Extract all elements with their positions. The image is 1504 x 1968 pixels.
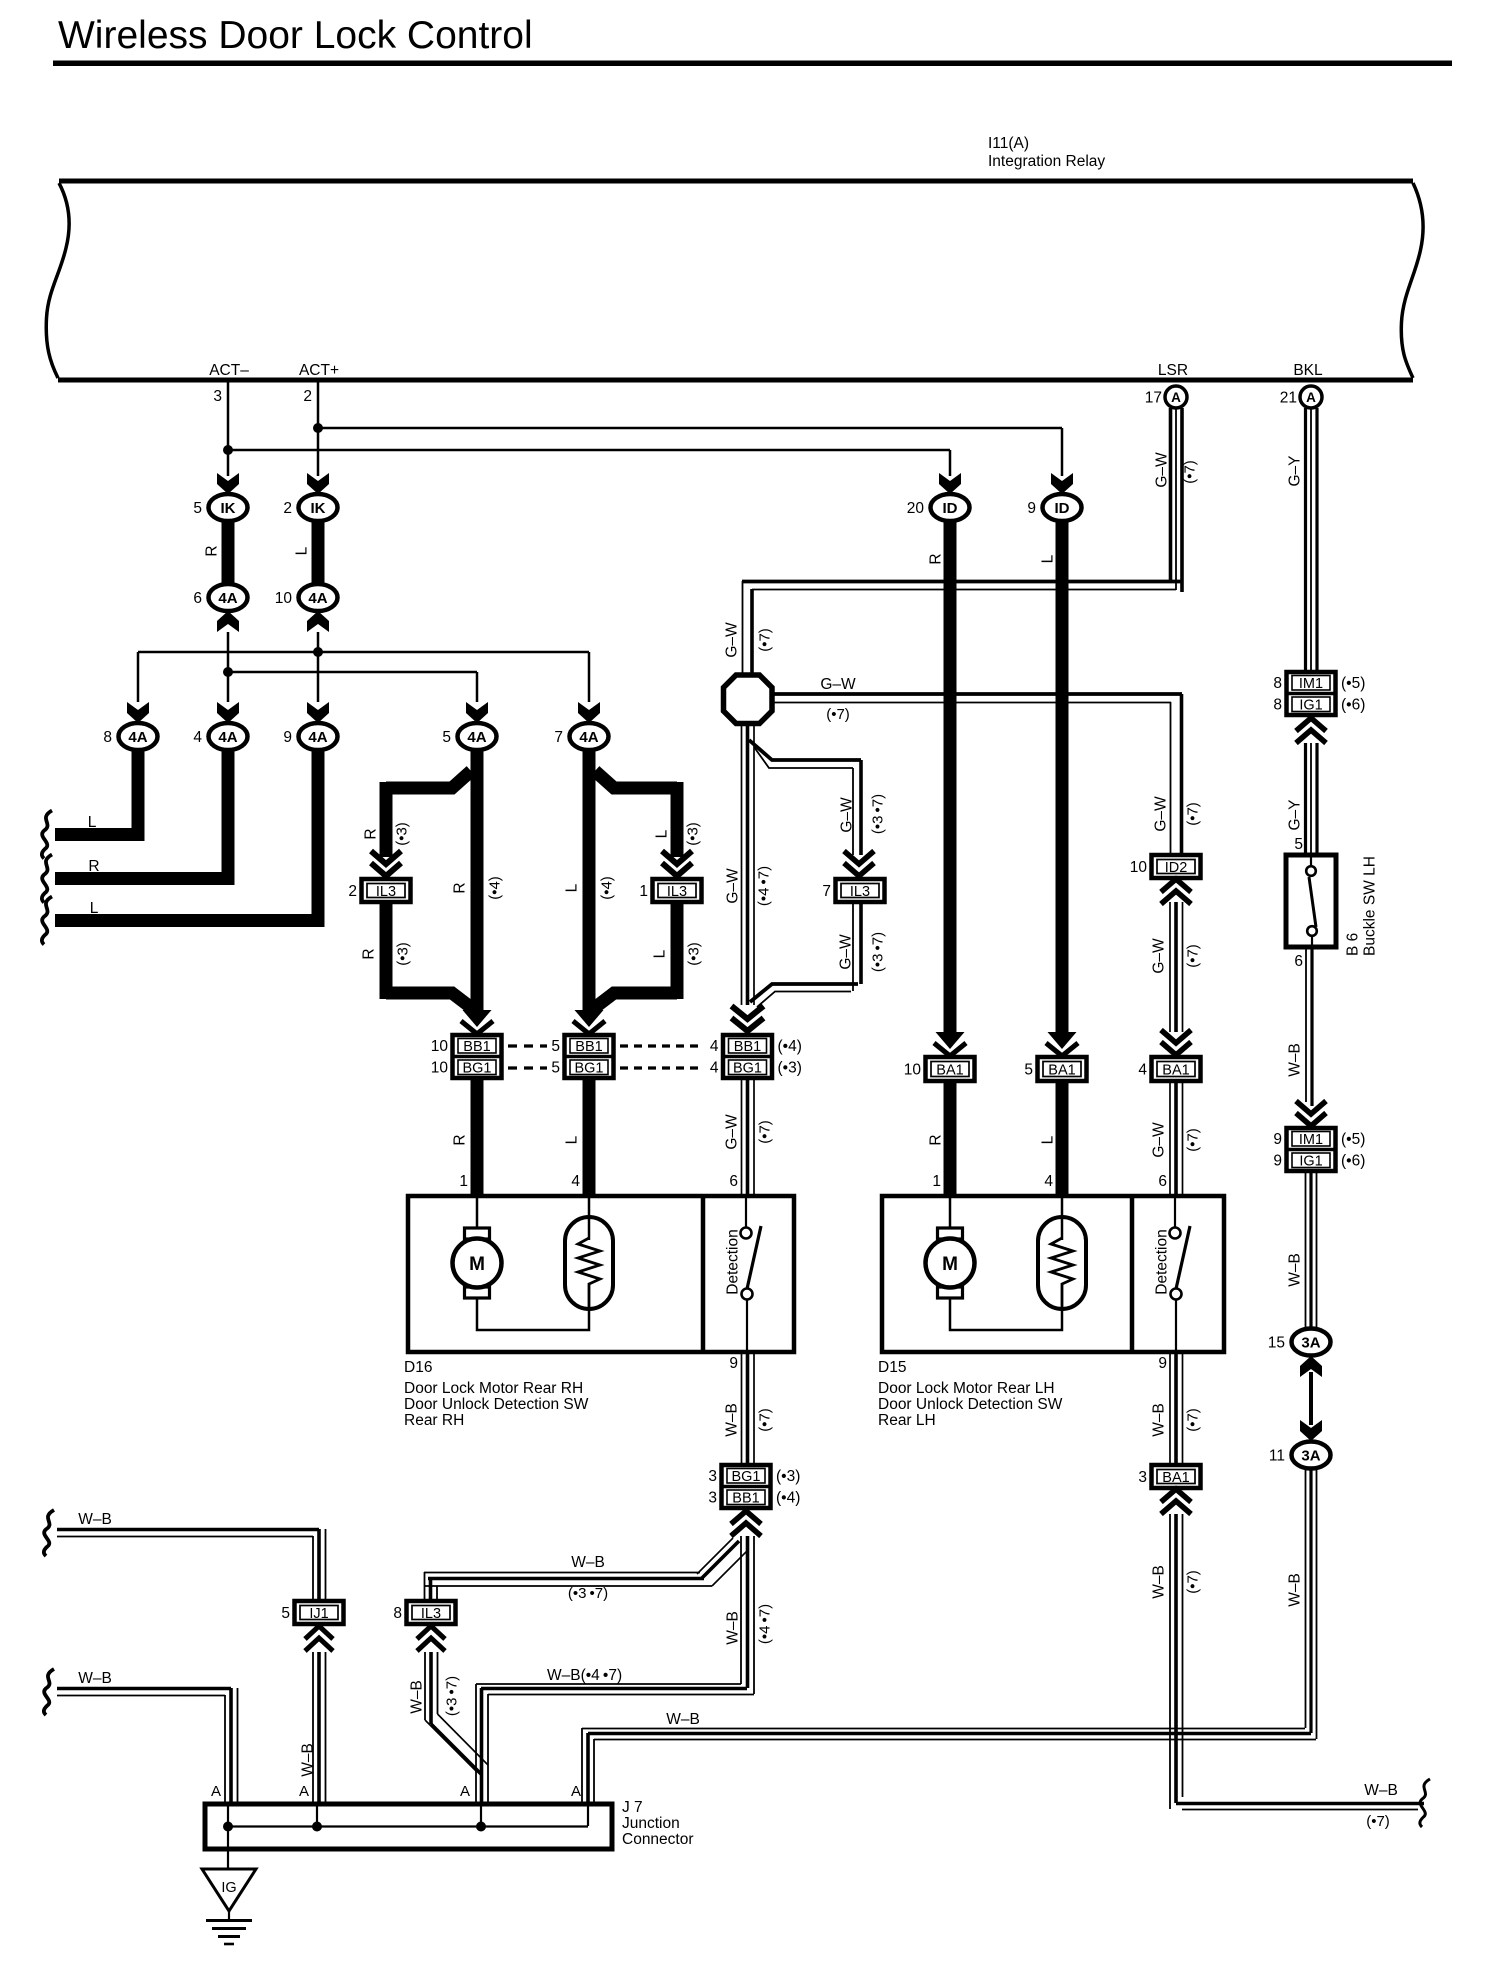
svg-text:G–W: G–W bbox=[1151, 938, 1168, 974]
svg-text:R: R bbox=[928, 553, 945, 564]
svg-text:W–B: W–B bbox=[1287, 1043, 1304, 1077]
svg-text:5: 5 bbox=[551, 1038, 560, 1055]
svg-text:ACT–: ACT– bbox=[209, 362, 249, 379]
svg-text:ACT+: ACT+ bbox=[299, 362, 339, 379]
arrow into 4A row2 at x=138 bbox=[127, 702, 149, 723]
connector 3A pin 11 bbox=[1292, 1442, 1331, 1469]
svg-text:M: M bbox=[942, 1254, 958, 1275]
svg-text:(•7): (•7) bbox=[1185, 1408, 1202, 1432]
svg-text:(•4): (•4) bbox=[778, 1038, 802, 1055]
junction dot ACT+ branch bbox=[313, 423, 323, 433]
wire G-Y from IM1/IG1-8 to B6 pin 5 bbox=[1304, 743, 1307, 855]
svg-text:4: 4 bbox=[571, 1173, 580, 1190]
break mark bbox=[44, 1510, 54, 1556]
arrow into IL3 pin 2 bbox=[371, 851, 401, 876]
svg-text:4: 4 bbox=[193, 729, 202, 746]
svg-text:5: 5 bbox=[551, 1060, 560, 1077]
svg-text:10: 10 bbox=[904, 1062, 922, 1079]
svg-text:BG1: BG1 bbox=[733, 1061, 762, 1077]
thick wire L from 4A-7 to BB1 (main) bbox=[583, 748, 596, 1013]
svg-text:(•3): (•3) bbox=[686, 942, 703, 966]
wire W-B from BA1-3 down to right break bbox=[1169, 1514, 1171, 1809]
svg-text:(•7): (•7) bbox=[757, 628, 774, 652]
svg-text:3A: 3A bbox=[1301, 1448, 1320, 1465]
svg-text:IL3: IL3 bbox=[850, 884, 870, 900]
arrow into BB1 pin 10 bbox=[463, 1010, 492, 1027]
svg-text:L: L bbox=[1040, 1135, 1057, 1144]
svg-text:Door Lock Motor Rear RH: Door Lock Motor Rear RH bbox=[404, 1380, 583, 1397]
svg-text:BKL: BKL bbox=[1293, 362, 1323, 379]
svg-text:G–W: G–W bbox=[1154, 452, 1171, 488]
wire down into IL3-8 top bbox=[424, 1572, 426, 1601]
svg-text:(•7): (•7) bbox=[1185, 1128, 1202, 1152]
connector IM1(*5)/IG1(*6) pin 9 bbox=[1287, 1128, 1336, 1171]
svg-text:L: L bbox=[88, 814, 97, 831]
svg-text:3A: 3A bbox=[1301, 1335, 1320, 1352]
svg-text:W–B: W–B bbox=[725, 1611, 742, 1645]
svg-text:B 6: B 6 bbox=[1345, 933, 1362, 956]
svg-text:L: L bbox=[564, 1135, 581, 1144]
dashed link BG1 row bbox=[508, 1066, 547, 1069]
svg-text:IM1: IM1 bbox=[1299, 676, 1323, 692]
arrow into 4A row2 at x=589 bbox=[578, 702, 600, 723]
wire G-W between ID2 and BA1-4 bbox=[1169, 902, 1171, 1032]
svg-text:BB1: BB1 bbox=[463, 1039, 490, 1055]
distribution wire y672 to 4A pins 4/5/9 bbox=[228, 671, 477, 674]
svg-text:(•7): (•7) bbox=[1185, 944, 1202, 968]
thick wire R from ID-20 to BA1-10 bbox=[944, 519, 957, 1035]
svg-text:6: 6 bbox=[193, 590, 202, 607]
svg-text:IG1: IG1 bbox=[1299, 1154, 1322, 1170]
svg-text:11: 11 bbox=[1269, 1448, 1285, 1465]
svg-text:Detection: Detection bbox=[725, 1229, 742, 1294]
dashed link BG1 row 2-3 bbox=[620, 1066, 704, 1069]
svg-text:(•6): (•6) bbox=[1341, 697, 1365, 714]
svg-text:Integration Relay: Integration Relay bbox=[988, 153, 1105, 170]
svg-text:(•3): (•3) bbox=[685, 822, 702, 846]
svg-text:R: R bbox=[204, 545, 221, 556]
svg-text:2: 2 bbox=[303, 388, 312, 405]
svg-text:1: 1 bbox=[932, 1173, 941, 1190]
svg-text:G–Y: G–Y bbox=[1287, 455, 1304, 486]
ground symbol bbox=[228, 1911, 230, 1920]
wire W-B from IM1/IG1-9 to fuse 3A-15 bbox=[1305, 1171, 1307, 1328]
wire W-B horizontal (*4*7) to junction connector bbox=[476, 1683, 741, 1685]
diagonal merge into junction feed bbox=[431, 1724, 482, 1775]
connector BA1 pin 10 bbox=[926, 1057, 975, 1081]
svg-text:A: A bbox=[211, 1783, 221, 1800]
svg-text:4A: 4A bbox=[218, 729, 237, 746]
svg-text:7: 7 bbox=[822, 883, 831, 900]
svg-text:(•3 •7): (•3 •7) bbox=[870, 794, 887, 834]
wire G-W from splice down (main) bbox=[741, 723, 743, 1005]
wire from relay pin 2 down to IK connector bbox=[317, 382, 320, 476]
wire W-B from D16 pin 9 bbox=[741, 1352, 743, 1464]
connector BB1/BG1 pin 10 bbox=[453, 1035, 502, 1078]
svg-text:BG1: BG1 bbox=[731, 1469, 760, 1485]
wire G-W from LSR down bbox=[1169, 408, 1173, 583]
arrow into 4A row2 at x=477 bbox=[466, 702, 488, 723]
svg-text:7: 7 bbox=[554, 729, 563, 746]
integration relay I11(A) box bbox=[59, 179, 1413, 184]
svg-text:IM1: IM1 bbox=[1299, 1132, 1323, 1148]
connector 4A pin 4 bbox=[209, 723, 248, 750]
svg-text:IL3: IL3 bbox=[667, 884, 687, 900]
svg-text:17: 17 bbox=[1145, 390, 1162, 407]
svg-text:A: A bbox=[1306, 390, 1316, 405]
thick wire L from BG1-5 to D16 pin 4 bbox=[583, 1078, 596, 1196]
svg-text:6: 6 bbox=[729, 1173, 738, 1190]
svg-text:4A: 4A bbox=[579, 729, 598, 746]
svg-text:BA1: BA1 bbox=[1048, 1063, 1075, 1079]
junction dot bbox=[476, 1822, 486, 1832]
svg-text:2: 2 bbox=[283, 500, 292, 517]
pin 17 terminal A (LSR) bbox=[1165, 386, 1187, 408]
svg-text:Junction: Junction bbox=[622, 1815, 680, 1832]
svg-text:3: 3 bbox=[213, 388, 222, 405]
svg-text:L: L bbox=[652, 949, 669, 958]
connector IJ1 pin 5 bbox=[295, 1601, 344, 1624]
wire to ground bbox=[227, 1826, 229, 1869]
D15 motor M bbox=[949, 1198, 952, 1228]
svg-text:6: 6 bbox=[1294, 953, 1303, 970]
arrow up into IJ1-5 bbox=[305, 1626, 333, 1651]
thick wire R between IK and 4A bbox=[222, 519, 235, 586]
svg-text:W–B: W–B bbox=[1364, 1782, 1398, 1799]
svg-text:(•3 •7): (•3 •7) bbox=[568, 1585, 608, 1602]
arrow up into BA1-3 bbox=[1161, 1489, 1191, 1514]
svg-text:L: L bbox=[654, 829, 671, 838]
svg-text:4: 4 bbox=[1138, 1062, 1147, 1079]
svg-text:R: R bbox=[452, 1134, 469, 1145]
return to main wire above BB1-4 bbox=[750, 984, 858, 1002]
svg-text:8: 8 bbox=[103, 729, 112, 746]
connector IL3 pin 7 bbox=[836, 879, 885, 902]
svg-text:(•3): (•3) bbox=[778, 1060, 802, 1077]
wire W-B from D15 pin 9 bbox=[1169, 1352, 1171, 1464]
connector 4A pin 9 bbox=[299, 723, 338, 750]
svg-text:A: A bbox=[460, 1783, 470, 1800]
thick wire R from 4A-5 to BB1 (main) bbox=[471, 748, 484, 1013]
svg-text:10: 10 bbox=[431, 1038, 449, 1055]
dashed link BB1 row 2-3 bbox=[620, 1044, 704, 1047]
svg-text:(•7): (•7) bbox=[757, 1120, 774, 1144]
D15 unlock detection lamp/resistor bbox=[1038, 1217, 1086, 1309]
connector 4A pin 8 bbox=[119, 723, 158, 750]
svg-text:W–B: W–B bbox=[409, 1680, 426, 1714]
wire W-B from body harness to IJ1-5 bbox=[57, 1528, 319, 1532]
svg-text:IL3: IL3 bbox=[421, 1606, 441, 1622]
svg-text:ID: ID bbox=[1055, 500, 1070, 517]
break mark bbox=[44, 1669, 54, 1715]
svg-text:R: R bbox=[452, 882, 469, 893]
svg-text:15: 15 bbox=[1268, 1335, 1285, 1352]
wire W-B below IL3-8 bbox=[424, 1652, 426, 1720]
svg-text:Rear RH: Rear RH bbox=[404, 1412, 464, 1429]
junction dot ACT- branch bbox=[223, 445, 233, 455]
svg-text:Door Lock Motor Rear LH: Door Lock Motor Rear LH bbox=[878, 1380, 1055, 1397]
svg-text:W–B: W–B bbox=[1287, 1253, 1304, 1287]
connector ID pin 9 bbox=[1043, 494, 1082, 521]
arrow up into ID2 bbox=[1161, 879, 1191, 904]
ground IG triangle bbox=[202, 1869, 256, 1911]
svg-text:Wireless Door Lock Control: Wireless Door Lock Control bbox=[58, 14, 533, 57]
svg-text:(•5): (•5) bbox=[1341, 675, 1365, 692]
svg-text:(•3): (•3) bbox=[776, 1468, 800, 1485]
D15 internal wire motor to lamp bbox=[950, 1298, 1062, 1330]
D16 motor M bbox=[476, 1198, 479, 1228]
svg-text:BG1: BG1 bbox=[462, 1061, 491, 1077]
splice octagon junction bbox=[724, 675, 773, 724]
junction dot at 4A-6 feed bbox=[223, 667, 233, 677]
connector 4A pin 7 bbox=[570, 723, 609, 750]
thick wire R from BG1-10 to D16 pin 1 bbox=[471, 1078, 484, 1196]
connector BB1/BG1 pin 5 bbox=[565, 1035, 614, 1078]
svg-text:5: 5 bbox=[193, 500, 202, 517]
svg-text:L: L bbox=[294, 546, 311, 555]
svg-text:W–B: W–B bbox=[724, 1403, 741, 1437]
wire W-B from 3A-11 down to junction line bbox=[1305, 1468, 1307, 1728]
svg-text:(•5): (•5) bbox=[1341, 1131, 1365, 1148]
arrow into BA1 pin 10 bbox=[936, 1032, 965, 1049]
arrow down into BB1 pin 4 bbox=[732, 1006, 764, 1031]
svg-text:W–B: W–B bbox=[300, 1743, 317, 1777]
wire W-B from B6 pin 6 down bbox=[1305, 947, 1307, 1102]
svg-text:(•4 •7): (•4 •7) bbox=[756, 866, 773, 906]
svg-text:(•7): (•7) bbox=[826, 706, 850, 723]
J7 pin stubs bbox=[227, 1806, 229, 1826]
arrow down into 3A-11 bbox=[1300, 1420, 1322, 1441]
svg-text:W–B: W–B bbox=[1287, 1573, 1304, 1607]
branch diagonal to IL3-8 wire bbox=[701, 1541, 739, 1579]
svg-text:(•4 •7): (•4 •7) bbox=[757, 1604, 774, 1644]
svg-text:ID2: ID2 bbox=[1165, 860, 1188, 876]
connector IL3 pin 2 bbox=[362, 879, 411, 902]
connector BG1/BB1 pin 3 bbox=[722, 1465, 771, 1508]
svg-text:W–B: W–B bbox=[1151, 1565, 1168, 1599]
wire W-B from IJ1 to junction connector bbox=[312, 1652, 314, 1803]
svg-text:G–W: G–W bbox=[838, 934, 855, 970]
wire below IL3-1 bbox=[671, 902, 684, 999]
svg-text:J 7: J 7 bbox=[622, 1799, 643, 1816]
wire G-W jog left toward splice bbox=[742, 580, 1182, 584]
wire W-B horizontal to IL3-8 bbox=[424, 1572, 700, 1574]
arrow up into BG1/BB1-3 bbox=[731, 1511, 761, 1536]
wire W-B down from BG1/BB1-3 bbox=[740, 1536, 742, 1684]
svg-text:(•3): (•3) bbox=[394, 822, 411, 846]
svg-text:BB1: BB1 bbox=[732, 1491, 759, 1507]
wire W-B from body harness to junction connector bbox=[57, 1687, 231, 1691]
branch to IL3-2: diagonal+horizontal bbox=[386, 771, 471, 788]
svg-text:IG1: IG1 bbox=[1299, 698, 1322, 714]
svg-text:20: 20 bbox=[907, 500, 925, 517]
svg-text:(•4): (•4) bbox=[599, 876, 616, 900]
arrow up into 4A pin 6 bbox=[217, 611, 239, 632]
connector BA1 pin 3 bbox=[1152, 1465, 1201, 1488]
connector 4A pin 5 bbox=[458, 723, 497, 750]
svg-text:10: 10 bbox=[1130, 859, 1148, 876]
D16 unlock detection lamp/resistor bbox=[565, 1217, 613, 1309]
svg-text:(•7): (•7) bbox=[1366, 1813, 1390, 1830]
svg-text:4: 4 bbox=[710, 1060, 719, 1077]
return to main wire bbox=[386, 993, 473, 1009]
return to main wire bbox=[593, 993, 677, 1009]
svg-text:4: 4 bbox=[710, 1038, 719, 1055]
junction dot at 4A-10 feed bbox=[313, 647, 323, 657]
arrow down into IM1/IG1-9 bbox=[1296, 1101, 1326, 1126]
svg-text:W–B: W–B bbox=[78, 1511, 112, 1528]
arrow up below 3A-15 bbox=[1300, 1356, 1322, 1377]
title underline bbox=[53, 61, 1452, 67]
wire 4A-6 down through junctions bbox=[227, 632, 230, 702]
svg-text:(•4): (•4) bbox=[487, 876, 504, 900]
svg-text:W–B: W–B bbox=[571, 1554, 605, 1571]
svg-text:9: 9 bbox=[1158, 1355, 1167, 1372]
svg-text:G–Y: G–Y bbox=[1287, 799, 1304, 830]
wire W-B horizontal to right break mark bbox=[1176, 1802, 1424, 1806]
svg-text:4A: 4A bbox=[467, 729, 486, 746]
svg-text:9: 9 bbox=[1273, 1153, 1282, 1170]
wire below IL3-2 bbox=[380, 902, 393, 999]
component B6 Buckle SW LH box bbox=[1286, 855, 1336, 947]
J7 internal bus bbox=[228, 1825, 588, 1827]
arrow into ID pin 20 bbox=[939, 473, 961, 494]
svg-text:(•7): (•7) bbox=[1185, 1570, 1202, 1594]
svg-text:A: A bbox=[1171, 390, 1181, 405]
break mark bbox=[42, 855, 52, 903]
svg-text:G–W: G–W bbox=[724, 1114, 741, 1150]
svg-text:(•3 •7): (•3 •7) bbox=[870, 932, 887, 972]
svg-text:IJ1: IJ1 bbox=[309, 1606, 328, 1622]
svg-text:BB1: BB1 bbox=[734, 1039, 761, 1055]
svg-text:9: 9 bbox=[1027, 500, 1036, 517]
svg-text:Door Unlock Detection SW: Door Unlock Detection SW bbox=[404, 1396, 589, 1413]
branch to IL3-1 bbox=[595, 771, 677, 788]
svg-text:(•4): (•4) bbox=[776, 1490, 800, 1507]
wire G-W from BG1-4 to D16 pin 6 bbox=[741, 1078, 743, 1196]
svg-text:(•7): (•7) bbox=[1182, 460, 1199, 484]
svg-text:R: R bbox=[928, 1134, 945, 1145]
wire down to junction connector bbox=[581, 1728, 583, 1803]
connector BA1 pin 5 bbox=[1038, 1057, 1087, 1081]
arrow up into IL3-8 bbox=[417, 1626, 445, 1651]
arrow into 4A row2 at x=228 bbox=[217, 702, 239, 723]
B6 switch bbox=[1310, 857, 1312, 866]
wire G-Y from BKL down to IM1/IG1-8 bbox=[1304, 408, 1307, 672]
svg-text:G–W: G–W bbox=[1151, 1122, 1168, 1158]
svg-text:G–W: G–W bbox=[725, 868, 742, 904]
connector 4A pin 10 bbox=[299, 584, 338, 611]
junction dot bbox=[312, 1822, 322, 1832]
arrow into IK pin 5 bbox=[217, 473, 239, 494]
svg-text:IK: IK bbox=[311, 500, 326, 517]
svg-text:R: R bbox=[361, 948, 378, 959]
thick wire L to door harness (from 4A-9) bbox=[55, 748, 318, 921]
junction dot bbox=[223, 1822, 233, 1832]
arrow into BB1 pin 5 bbox=[575, 1010, 604, 1027]
svg-text:BA1: BA1 bbox=[1162, 1470, 1189, 1486]
svg-text:9: 9 bbox=[729, 1355, 738, 1372]
svg-text:4A: 4A bbox=[128, 729, 147, 746]
svg-text:W–B: W–B bbox=[78, 1670, 112, 1687]
svg-text:I11(A): I11(A) bbox=[988, 135, 1029, 152]
connector IM1(*5)/IG1(*6) pin 8 bbox=[1287, 672, 1336, 715]
svg-text:5: 5 bbox=[281, 1605, 290, 1622]
arrow into BA1 pin 5 bbox=[1048, 1032, 1077, 1049]
wire G-W from splice right to ID2 column bbox=[772, 692, 1182, 696]
svg-text:10: 10 bbox=[275, 590, 293, 607]
svg-text:BA1: BA1 bbox=[1162, 1063, 1189, 1079]
svg-text:8: 8 bbox=[393, 1605, 402, 1622]
svg-text:G–W: G–W bbox=[1153, 796, 1170, 832]
svg-text:(•7): (•7) bbox=[757, 1408, 774, 1432]
branch to IL3-7 bbox=[749, 740, 861, 760]
connector IK pin 2 bbox=[299, 494, 338, 521]
svg-text:3: 3 bbox=[708, 1468, 717, 1485]
arrow up into IM1/IG1-8 bbox=[1296, 718, 1326, 743]
svg-text:ID: ID bbox=[943, 500, 958, 517]
thick wire L from ID-9 to BA1-5 bbox=[1056, 519, 1069, 1035]
svg-text:G–W: G–W bbox=[724, 622, 741, 658]
svg-text:G–W: G–W bbox=[820, 676, 856, 693]
svg-text:W–B: W–B bbox=[1151, 1403, 1168, 1437]
arrow into IL3 pin 7 bbox=[844, 851, 874, 876]
svg-text:5: 5 bbox=[1024, 1062, 1033, 1079]
svg-text:Door Unlock Detection SW: Door Unlock Detection SW bbox=[878, 1396, 1063, 1413]
svg-text:LSR: LSR bbox=[1158, 362, 1188, 379]
svg-text:4: 4 bbox=[1044, 1173, 1053, 1190]
arrow into 4A row2 at x=318 bbox=[307, 702, 329, 723]
connector ID pin 20 bbox=[931, 494, 970, 521]
thick wire L to door harness (from 4A-8) bbox=[55, 748, 138, 835]
wire down to junction connector pin A bbox=[475, 1684, 477, 1803]
svg-text:R: R bbox=[88, 858, 99, 875]
svg-text:BG1: BG1 bbox=[574, 1061, 603, 1077]
component D16 box bbox=[408, 1196, 794, 1352]
connector 4A pin 6 bbox=[209, 584, 248, 611]
svg-text:Detection: Detection bbox=[1154, 1229, 1171, 1294]
wire G-W from BA1-4 to D15 pin 6 bbox=[1169, 1081, 1171, 1196]
wire jog from ACT+ to 9 ID bbox=[318, 427, 1062, 430]
svg-text:3: 3 bbox=[708, 1490, 717, 1507]
svg-text:L: L bbox=[564, 883, 581, 892]
svg-text:G–W: G–W bbox=[839, 797, 856, 833]
svg-text:D15: D15 bbox=[878, 1359, 906, 1376]
svg-text:5: 5 bbox=[442, 729, 451, 746]
svg-text:A: A bbox=[571, 1783, 581, 1800]
svg-text:8: 8 bbox=[1273, 697, 1282, 714]
svg-text:IK: IK bbox=[221, 500, 236, 517]
thick wire L between IK and 4A bbox=[312, 519, 325, 586]
svg-text:(•7): (•7) bbox=[1185, 802, 1202, 826]
svg-text:Buckle SW LH: Buckle SW LH bbox=[1362, 856, 1379, 956]
wire G-W down to ID2 bbox=[1170, 702, 1172, 855]
svg-text:(•6): (•6) bbox=[1341, 1153, 1365, 1170]
svg-text:D16: D16 bbox=[404, 1359, 432, 1376]
svg-text:8: 8 bbox=[1273, 675, 1282, 692]
svg-text:L: L bbox=[1040, 554, 1057, 563]
arrow up into 4A pin 10 bbox=[307, 611, 329, 632]
svg-text:5: 5 bbox=[1294, 836, 1303, 853]
wire below IL3-7 bbox=[859, 902, 863, 984]
junction connector J7 box bbox=[205, 1804, 612, 1849]
arrow down into BA1 pin 4 bbox=[1161, 1030, 1191, 1055]
svg-text:W–B: W–B bbox=[666, 1711, 700, 1728]
thick wire R to door harness (from 4A-4) bbox=[55, 748, 228, 879]
svg-text:4A: 4A bbox=[218, 590, 237, 607]
arrow into ID pin 9 bbox=[1051, 473, 1073, 494]
wire 4A-10 down through junctions bbox=[317, 632, 320, 702]
